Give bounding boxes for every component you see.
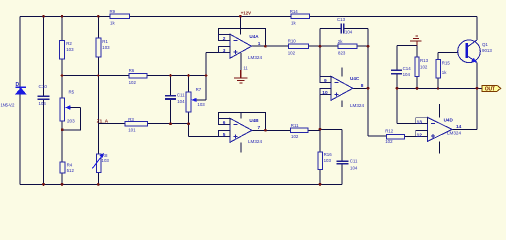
svg-text:R2: R2: [66, 41, 72, 46]
svg-text:103: 103: [66, 47, 74, 52]
wire C11 column: [170, 76, 172, 124]
wire U4D output: [452, 128, 477, 130]
ground (under U4A): [234, 53, 247, 83]
node fb right: [367, 45, 370, 48]
wire top rail: [20, 15, 477, 17]
node rail x62: [61, 15, 64, 18]
svg-text:104: 104: [345, 30, 353, 35]
svg-text:U4C: U4C: [350, 76, 360, 81]
svg-text:Q1: Q1: [482, 42, 488, 47]
svg-text:R6: R6: [129, 68, 135, 73]
svg-text:R12: R12: [385, 129, 394, 134]
svg-text:104: 104: [403, 72, 411, 77]
svg-text:1N5-V.2: 1N5-V.2: [1, 103, 15, 108]
power +12V: [239, 10, 251, 17]
node mid x62: [61, 74, 64, 77]
resistor R10 (U4A output): [288, 38, 309, 55]
svg-text:1k: 1k: [110, 21, 115, 26]
wire U4C output stub: [353, 87, 368, 89]
wire Q1 emitter vertical: [476, 62, 478, 129]
svg-text:6: 6: [223, 120, 226, 126]
node low R7: [187, 122, 190, 125]
svg-text:7: 7: [258, 125, 261, 131]
op-amp U4A: [218, 34, 262, 70]
svg-text:+12V: +12V: [241, 10, 251, 15]
svg-text:101: 101: [128, 127, 136, 132]
transistor Q1: [458, 40, 493, 63]
svg-text:LM324: LM324: [350, 103, 364, 108]
potentiometer R7 (x188 column): [186, 87, 206, 112]
resistor R15: [436, 60, 451, 79]
ground (top right, inverted): [410, 36, 421, 46]
resistor R13: [415, 57, 429, 76]
svg-text:1k: 1k: [291, 21, 296, 26]
node U4C out: [367, 87, 370, 90]
node C14 bottom: [396, 87, 399, 90]
svg-text:OUT: OUT: [485, 87, 495, 93]
capacitor C11: [165, 93, 185, 105]
resistor Rf 2k (U4C feedback): [338, 39, 357, 55]
svg-text:103: 103: [102, 45, 110, 50]
resistor R11 (U4B output): [291, 123, 309, 139]
node U4A fb out: [264, 45, 267, 48]
port OUT: [482, 85, 501, 92]
svg-text:R1: R1: [102, 39, 108, 44]
wire R13 column: [416, 46, 418, 89]
svg-text:203: 203: [67, 118, 75, 123]
resistor R9 (top rail left): [110, 9, 130, 25]
wire U4B output y130: [252, 129, 320, 131]
svg-text:C11: C11: [350, 158, 358, 163]
svg-text:U4D: U4D: [444, 118, 454, 123]
svg-text:102: 102: [420, 64, 428, 69]
svg-text:C14: C14: [403, 66, 412, 71]
capacitor C12: [336, 158, 358, 170]
wire left vertical column: [19, 16, 21, 184]
wire mid horizontal y75.5: [62, 53, 218, 101]
node U4B fb out: [264, 129, 267, 132]
svg-text:R5: R5: [69, 89, 75, 94]
svg-text:12: 12: [417, 132, 423, 138]
svg-text:R4: R4: [67, 162, 73, 167]
svg-text:U4A: U4A: [249, 34, 259, 39]
svg-text:2: 2: [223, 36, 226, 42]
capacitor C14: [391, 66, 411, 77]
svg-text:102: 102: [288, 50, 296, 55]
wire C14 column: [396, 46, 398, 124]
wire ground2 horizontal: [397, 45, 417, 47]
wire C13 top branch: [320, 27, 368, 29]
svg-text:LM324: LM324: [447, 130, 461, 135]
svg-text:512: 512: [67, 168, 75, 173]
wire Q1 collector vertical: [476, 16, 478, 40]
svg-text:823: 823: [338, 50, 346, 55]
wire C10 column: [43, 16, 45, 184]
wire x320 vertical: [319, 28, 321, 129]
wire Q1 base and R15 column: [438, 53, 458, 89]
wire x368 vertical: [368, 28, 416, 136]
svg-text:R11: R11: [291, 123, 299, 128]
node bottom rail R16: [319, 183, 322, 186]
svg-text:R9: R9: [110, 9, 116, 14]
svg-text:104: 104: [39, 101, 47, 106]
op-amp U4C: [320, 76, 365, 108]
wire U4A feedback loop: [218, 29, 265, 47]
node bottom rail x43: [42, 183, 45, 186]
node mid R7: [187, 74, 190, 77]
svg-text:2k: 2k: [338, 39, 343, 44]
svg-text:R15: R15: [442, 60, 451, 65]
svg-text:1k: 1k: [442, 70, 447, 75]
node low C11: [169, 122, 172, 125]
node R15 bottom: [437, 87, 439, 89]
resistor R1 (top of x98 column): [96, 38, 110, 57]
capacitor C10: [38, 84, 50, 106]
svg-text:1: 1: [258, 41, 261, 47]
node rail x43: [42, 15, 45, 18]
wire U4C power stub: [341, 67, 343, 76]
svg-text:103: 103: [197, 102, 205, 107]
svg-text:R3: R3: [128, 117, 134, 122]
node U4C plus: [319, 128, 322, 131]
svg-text:Z1_A: Z1_A: [97, 119, 109, 124]
node bottom rail x62: [61, 183, 64, 186]
wire U4D ground stub: [439, 141, 441, 153]
resistor R16: [318, 152, 332, 169]
wire U4D minus input: [397, 123, 416, 125]
node mid x98: [97, 74, 99, 76]
svg-text:104: 104: [350, 165, 358, 170]
wire U4B feedback loop: [218, 112, 265, 130]
wire R1 trimmer column x98: [97, 16, 99, 184]
svg-text:103: 103: [324, 158, 332, 163]
wire R2 pot column x62: [61, 16, 63, 184]
svg-text:5: 5: [223, 132, 226, 138]
wire R7 column: [188, 76, 190, 124]
svg-text:9: 9: [324, 78, 327, 84]
resistor R4 (bottom of x62 column): [60, 162, 74, 173]
svg-text:104: 104: [177, 99, 185, 104]
svg-text:13: 13: [417, 119, 423, 125]
svg-text:U4B: U4B: [249, 118, 259, 123]
wire U4A power stub: [240, 16, 242, 34]
wire bottom rail: [20, 183, 342, 185]
node fb left: [319, 45, 322, 48]
svg-text:C13: C13: [337, 17, 346, 22]
wire U4C ground stub: [341, 100, 343, 107]
resistor R3 (low horizontal y123.7): [125, 117, 147, 132]
svg-text:LM324: LM324: [248, 139, 262, 144]
wire OUT line y88.4: [397, 87, 482, 89]
svg-text:R10: R10: [288, 38, 297, 43]
svg-text:9013: 9013: [482, 48, 492, 53]
potentiometer R5: [60, 89, 81, 130]
svg-text:C11: C11: [177, 93, 185, 98]
svg-text:102: 102: [385, 139, 393, 144]
resistor R6 (mid horizontal y75.5): [129, 68, 148, 85]
node R13 bottom: [416, 87, 419, 90]
svg-text:14: 14: [456, 124, 462, 130]
node rail x98: [97, 15, 100, 18]
svg-text:11: 11: [243, 66, 248, 71]
node mid C11: [169, 74, 172, 77]
node bottom rail x98: [97, 183, 100, 186]
op-amp U4B: [218, 118, 262, 144]
capacitor C13: [337, 17, 353, 34]
svg-text:D: D: [16, 82, 20, 88]
diode D: [1, 82, 27, 108]
svg-text:103: 103: [102, 158, 110, 163]
trimmer resistor R8 (bottom of x98 column): [92, 153, 109, 173]
svg-text:R16: R16: [324, 152, 333, 157]
svg-text:R7: R7: [196, 87, 202, 92]
svg-text:R13: R13: [420, 58, 429, 63]
op-amp U4D: [416, 117, 462, 141]
node emitter out: [476, 87, 479, 90]
resistor R12 (U4D plus input): [385, 129, 404, 145]
node mid corner: [205, 74, 208, 77]
wire U4B ground stub: [240, 142, 242, 152]
svg-text:8: 8: [361, 83, 364, 89]
resistor R14 (top rail right): [290, 9, 310, 26]
svg-text:LM324: LM324: [248, 55, 262, 60]
wire U4A output y46: [252, 45, 369, 47]
wire U4B power stub: [240, 112, 242, 118]
svg-text:C10: C10: [39, 84, 48, 89]
svg-text:R14: R14: [290, 9, 299, 14]
node pot bottom: [61, 128, 64, 131]
wire low horizontal y123.7: [98, 124, 218, 137]
wire R16 column: [319, 129, 321, 184]
svg-text:3: 3: [223, 48, 226, 54]
wire C12 column: [320, 129, 342, 184]
resistor R2 (top of x62 column): [60, 41, 74, 60]
svg-text:102: 102: [129, 80, 137, 85]
svg-text:10: 10: [322, 90, 328, 96]
svg-text:102: 102: [291, 134, 299, 139]
wire U4D power stub: [439, 104, 441, 117]
